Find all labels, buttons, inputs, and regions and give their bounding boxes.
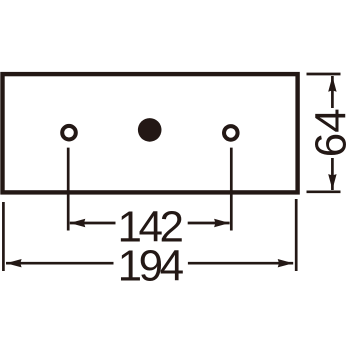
- extension line right of plate: [295, 199, 298, 271]
- arrowhead 142 left: [70, 219, 86, 227]
- knockout hole center (filled): [138, 118, 162, 142]
- extension line from right hole: [230, 148, 233, 231]
- arrowhead 194 left: [6, 259, 22, 267]
- mounting hole left: [62, 126, 76, 140]
- dimension line 64 bottom segment: [331, 158, 334, 190]
- dimension line 142 right segment: [188, 222, 230, 225]
- extension line top right of plate: [307, 73, 341, 76]
- extension line from left hole: [67, 148, 70, 231]
- dimension line 64 top segment: [331, 76, 334, 108]
- extension line bottom right of plate: [307, 190, 341, 193]
- dimension line 194 right segment: [188, 262, 293, 265]
- svg-text:194: 194: [118, 241, 184, 290]
- dimension line 142 left segment: [70, 222, 116, 225]
- arrowhead 64 down: [328, 174, 336, 190]
- arrowhead 194 right: [278, 259, 294, 267]
- arrowhead 64 up: [328, 76, 336, 92]
- extension line left of plate: [2, 202, 5, 271]
- svg-text:64: 64: [307, 108, 350, 157]
- arrowhead 142 right: [214, 219, 230, 227]
- mounting hole right: [224, 126, 238, 140]
- dimension line 194 left segment: [6, 262, 114, 265]
- plate outline: [3, 74, 298, 192]
